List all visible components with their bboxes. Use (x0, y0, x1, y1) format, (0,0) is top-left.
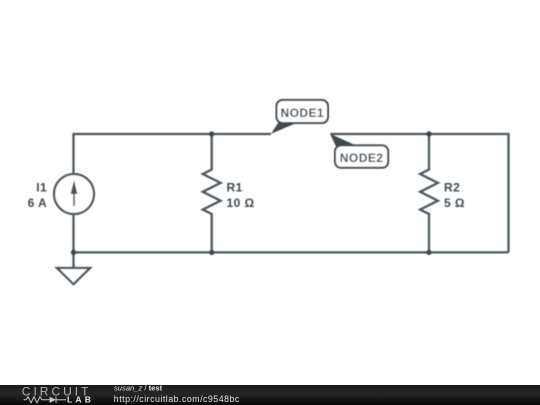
node flag NODE2 box (335, 145, 388, 167)
node flag NODE2 tail (330, 134, 358, 147)
junction dot bottom-left (71, 250, 76, 255)
junction dot R2 top (426, 131, 431, 136)
junction dot R1 top (209, 131, 214, 136)
svg-text:LAB: LAB (67, 395, 94, 405)
logo resistor zigzag and diode (24, 397, 67, 403)
svg-text:http://circuitlab.com/c9548bc: http://circuitlab.com/c9548bc (114, 394, 240, 404)
ground triangle (57, 268, 90, 284)
wire bottom rail (74, 251, 509, 253)
resistor R2 zigzag (420, 134, 438, 252)
current source I1 arrowhead (71, 180, 78, 194)
current source I1 circle (54, 174, 94, 214)
wire top-left segment (node NODE1) (74, 133, 272, 135)
wire left vertical bottom stub (72, 214, 74, 252)
junction dot R1 bottom (209, 250, 214, 255)
svg-text:10 Ω: 10 Ω (227, 196, 255, 210)
svg-text:6 A: 6 A (28, 196, 48, 210)
svg-text:R1: R1 (227, 180, 243, 194)
node flag NODE1 tail (271, 123, 298, 134)
current source I1 arrow shaft (73, 187, 75, 206)
wire right vertical (507, 133, 509, 252)
node flag NODE1 box (277, 100, 329, 123)
junction dot R2 bottom (426, 250, 431, 255)
svg-text:susan_z / test: susan_z / test (114, 383, 163, 392)
resistor R1 zigzag (203, 134, 221, 252)
svg-text:R2: R2 (444, 180, 460, 194)
wire top-right segment (node NODE2) (331, 133, 509, 135)
ground stem wire (72, 252, 74, 268)
svg-text:NODE2: NODE2 (340, 151, 384, 165)
wire left vertical top stub (72, 133, 74, 174)
svg-text:5 Ω: 5 Ω (444, 196, 465, 210)
svg-text:I1: I1 (36, 180, 47, 194)
svg-text:NODE1: NODE1 (281, 106, 325, 120)
